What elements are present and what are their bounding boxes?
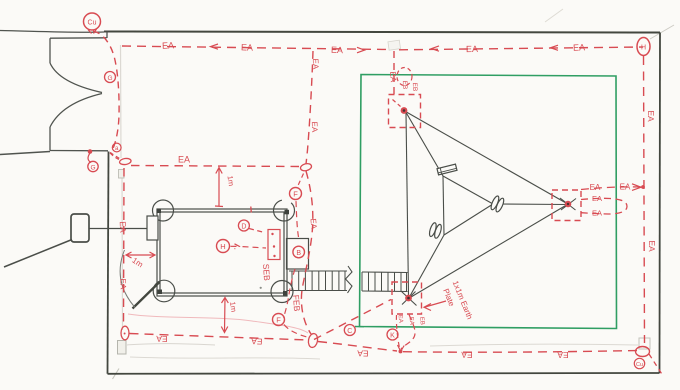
EA link right electrode to ring: [581, 187, 641, 190]
boundary wall approach line bottom: [0, 152, 50, 155]
wire top node to bottom node: [406, 113, 409, 295]
top electrode pit dashed box: [389, 95, 421, 128]
EA conductor bottom run mid: [318, 342, 397, 352]
svg-text:F: F: [293, 190, 298, 199]
gate lower swing arc: [50, 94, 102, 128]
pencil grey box under left node: [119, 170, 125, 179]
junction X right node: [560, 198, 576, 210]
wire tower edge bottom-top: [443, 176, 444, 235]
white-out patch on top run: [388, 40, 401, 50]
wire tower edge right-bottom: [444, 204, 493, 235]
pencil scratch top: [545, 9, 563, 22]
gate curve to left node: [110, 153, 120, 159]
column circle top-left: [153, 200, 174, 221]
service line diagonal feed: [4, 240, 72, 268]
EA spur B box to F circle: [296, 201, 299, 237]
svg-text:EA: EA: [118, 221, 128, 233]
svg-text:EA: EA: [646, 110, 656, 122]
label circle G below corner: [88, 161, 98, 171]
fence green overshoot bottom-left: [355, 326, 364, 328]
dash D circle to SEB: [249, 229, 265, 233]
stairs flight 2 treads: [362, 272, 407, 291]
red dash inside top pit to node: [393, 100, 401, 107]
EA spur vertical mid lower: [301, 171, 312, 334]
svg-text:EB: EB: [411, 82, 418, 91]
EA diagonal junction to bottom electrode: [314, 300, 391, 340]
pencil faint line right of bottom run: [430, 344, 638, 346]
right electrode pit dashed box: [552, 190, 581, 221]
svg-text:EA: EA: [466, 44, 478, 54]
EA conductor bottom run left: [130, 334, 309, 341]
boundary wall approach line top: [0, 31, 104, 33]
label circle a gate corner: [112, 143, 121, 152]
junction dot bottom run: [399, 349, 403, 353]
node dot on boundary at gate: [88, 149, 93, 154]
svg-text:EA: EA: [388, 71, 398, 83]
svg-text:EA: EA: [590, 183, 601, 192]
arrow into ring right: [632, 184, 641, 191]
building inner wall: [160, 212, 284, 293]
wire bottom leg to bottom node: [410, 235, 444, 296]
svg-text:EA: EA: [461, 350, 473, 360]
stairs flight 1 treads: [292, 271, 345, 291]
svg-text:D: D: [241, 224, 246, 231]
EA hook bottom electrode to bottom run: [401, 315, 415, 350]
gate left jamb lower: [49, 127, 51, 151]
wire right leg to right node: [493, 203, 567, 206]
svg-text:F: F: [276, 316, 281, 325]
svg-text:1m: 1m: [228, 301, 238, 313]
pencil faint guide left vertical lower: [121, 170, 124, 330]
svg-text:B: B: [296, 250, 301, 257]
svg-text:H: H: [641, 45, 646, 52]
gate top leaf: [50, 37, 107, 39]
svg-text:EA: EA: [620, 183, 631, 192]
pencil corner fold top-right: [650, 25, 674, 39]
EA spur horizontal mid-left: [131, 166, 300, 167]
svg-text:G: G: [90, 164, 95, 171]
pencil tick bottom-left corner: [113, 369, 120, 380]
gate bottom sill: [50, 150, 108, 152]
label circle K bottom: [387, 329, 398, 340]
svg-text:EA: EA: [178, 155, 190, 165]
node ellipse mid EA spur: [300, 163, 313, 172]
curve from red dot to G circle: [88, 153, 91, 163]
arrow into bottom run: [398, 345, 405, 351]
utility box far left: [71, 214, 89, 242]
top electrode inspection circle: [397, 68, 412, 86]
wire right node to bottom node: [411, 205, 567, 297]
EA conductor right run: [644, 56, 645, 343]
EA drop bottom electrode to bottom run: [396, 315, 399, 348]
arrow right on top run: [357, 47, 365, 53]
tower leg pad right: [490, 195, 506, 213]
label circle F upper: [290, 188, 302, 200]
red tick on top wall: [250, 207, 253, 213]
svg-text:EA: EA: [251, 336, 263, 347]
bottom-right corner diagonal dashes: [649, 354, 662, 374]
wire top node to top leg: [406, 112, 444, 177]
EA spur B box down to FEB: [284, 269, 296, 318]
svg-text:EA: EA: [309, 218, 319, 230]
label circle B: [293, 246, 305, 258]
column circle top-right: [274, 200, 295, 221]
EA conductor left run: [123, 168, 126, 326]
column pad bottom-left: [158, 290, 163, 295]
node ellipse top-right corner: [637, 38, 650, 56]
arrow left on top run: [211, 44, 219, 49]
label circle Cu top gate: [84, 13, 101, 30]
frame jog at gate top: [106, 32, 108, 39]
fence green rectangle: [360, 74, 617, 329]
svg-text:Cu: Cu: [636, 362, 643, 368]
svg-text:EA: EA: [311, 58, 320, 70]
svg-text:EA: EA: [241, 42, 253, 52]
svg-text:EA: EA: [118, 278, 127, 290]
column pad bottom-right: [283, 291, 288, 296]
top electrode node dot: [401, 107, 408, 114]
gate perimeter red curve: [93, 31, 119, 153]
corner dashes black corner to node: [110, 153, 119, 160]
gate left jamb upper: [49, 38, 51, 63]
svg-text:SEB: SEB: [261, 263, 272, 281]
EA conductor bottom run right: [403, 351, 639, 353]
column circle bottom-left: [153, 280, 175, 302]
earth plate label arrow: [424, 301, 446, 311]
node oval bottom-left: [121, 326, 129, 340]
svg-text:EA: EA: [408, 317, 415, 326]
pencil grey box bottom-right corner: [639, 338, 650, 349]
stairs flight 1 rails: [288, 271, 348, 291]
svg-text:EA: EA: [156, 334, 168, 344]
arrow left on top run 3: [551, 45, 559, 50]
svg-text:EA: EA: [162, 40, 174, 50]
gate upper swing arc: [50, 63, 102, 93]
junction dot right ring: [641, 185, 645, 189]
equipment box B on right wall: [287, 239, 309, 270]
svg-text:EA: EA: [557, 350, 569, 360]
column pad top-left: [157, 209, 162, 214]
dimension 1m bottom of building: [221, 298, 228, 333]
SEB bar: [268, 230, 280, 260]
svg-text:EA: EA: [592, 209, 602, 218]
label circle F lower: [273, 314, 285, 326]
pencil faint guide left vertical: [120, 45, 123, 158]
label circle H: [217, 240, 230, 253]
EA spur FEB to junction ellipse: [284, 325, 309, 338]
boundary wall left edge: [108, 152, 109, 374]
service line box to building: [89, 228, 147, 230]
tower leg pad bottom: [428, 222, 443, 239]
svg-text:Cu: Cu: [88, 20, 97, 27]
EA spur vertical mid upper: [306, 51, 313, 164]
door swing arc building: [120, 250, 135, 308]
svg-text:1m: 1m: [226, 175, 236, 187]
svg-text:EA: EA: [331, 45, 343, 55]
svg-text:EA: EA: [573, 42, 585, 52]
bottom electrode node dot: [405, 295, 412, 302]
pencil faint curve lower mid: [128, 314, 308, 333]
dimension 1m top of building: [215, 168, 223, 207]
node ellipse left of gate corner: [119, 158, 131, 166]
boundary wall right edge: [659, 33, 662, 374]
EA conductor top run: [122, 46, 643, 50]
svg-text:K: K: [390, 333, 395, 340]
svg-text:EA: EA: [310, 121, 319, 133]
pencil faint line from grey box: [126, 344, 215, 345]
EA drop to top electrode: [393, 51, 395, 94]
tower leg pad top: [437, 164, 457, 175]
svg-text:EA: EA: [397, 315, 404, 324]
svg-text:FEB: FEB: [291, 294, 302, 312]
node ellipse bottom-right corner: [636, 347, 650, 357]
stairs flight 2 rails: [362, 272, 408, 292]
dimension 1m left of building: [126, 252, 155, 258]
svg-text:EB: EB: [418, 317, 425, 326]
bottom electrode pit dashed box: [392, 282, 422, 314]
svg-text:EA: EA: [357, 348, 369, 358]
pencil grey box bottom-left: [118, 341, 127, 355]
label circle G gate: [105, 72, 116, 83]
pencil faint bottom wavy line: [130, 357, 320, 359]
SEB terminal dots: [271, 233, 273, 235]
EA test loop right electrode: [581, 198, 627, 214]
junction X bottom node: [401, 291, 417, 306]
label circle C bottom: [344, 325, 355, 336]
wire tower edge top-right: [443, 176, 493, 204]
door leaf building: [133, 282, 160, 309]
junction ellipse bottom mid: [307, 333, 318, 348]
svg-text:H: H: [220, 242, 225, 251]
balloon tail Cu circle: [88, 29, 97, 34]
svg-text:G: G: [107, 75, 112, 82]
dash H circle to SEB with arrow: [231, 244, 267, 249]
label circle Cu bottom-right: [634, 358, 644, 368]
stairs break line: [346, 266, 353, 293]
grey dot below SEB: [260, 287, 262, 289]
wall box on left wall: [147, 216, 158, 240]
wire top node to right node: [406, 112, 567, 204]
svg-text:EA: EA: [647, 240, 657, 252]
right electrode node dot: [565, 201, 572, 208]
boundary wall top edge: [104, 32, 660, 33]
svg-text:EA: EA: [592, 194, 602, 203]
label circle D: [238, 220, 249, 231]
building outer wall: [157, 209, 287, 296]
svg-text:EB: EB: [401, 80, 408, 89]
arrow left on top run 2: [432, 46, 440, 51]
column circle bottom-right: [271, 281, 293, 303]
svg-text:C: C: [347, 328, 352, 335]
branch ellipse to F circle: [298, 174, 304, 186]
column pad top-right: [285, 210, 290, 215]
boundary wall bottom edge: [108, 373, 660, 374]
